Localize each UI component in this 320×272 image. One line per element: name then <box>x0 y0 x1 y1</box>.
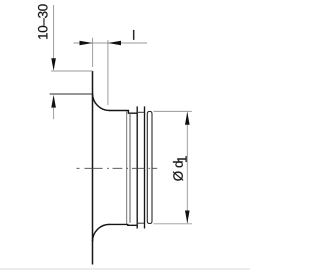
dim 10-30 arrow up <box>51 95 56 108</box>
top transition curve <box>93 94 110 111</box>
dim 10-30 line lower tail <box>53 108 55 120</box>
dim l ext left <box>92 38 94 67</box>
dim l ext right <box>107 40 109 105</box>
dim l arrow right-pointing <box>80 41 93 46</box>
dim l arrow left-pointing <box>108 41 121 46</box>
dim 10-30 arrow down <box>51 58 56 71</box>
dim l line <box>74 42 148 44</box>
bead left wall <box>136 106 138 228</box>
inner wall line A <box>126 111 128 223</box>
bead right wall <box>144 106 146 228</box>
label l <box>133 30 134 40</box>
dim d1 line <box>186 113 188 224</box>
bottom outer wall <box>109 223 137 226</box>
label 10-30 <box>38 4 48 39</box>
inner wall line B <box>129 112 131 223</box>
bottom transition curve <box>93 224 110 241</box>
dim d1 arrow down <box>185 211 190 224</box>
flange face <box>92 71 94 265</box>
top outer wall <box>109 111 137 114</box>
bottom page rule <box>0 268 250 270</box>
dim d1 ext top <box>154 110 192 112</box>
end cuff <box>147 111 152 223</box>
dim 10-30 line upper <box>53 5 55 59</box>
label Od1 <box>173 156 187 181</box>
ext line curve start <box>50 93 93 95</box>
wall tick between bead walls top <box>138 111 144 113</box>
center line <box>77 167 158 169</box>
dim d1 ext bottom <box>154 223 193 225</box>
ext line flange top <box>51 70 92 72</box>
dim d1 arrow up <box>185 112 190 125</box>
wall tick between bead walls bottom <box>138 222 144 224</box>
